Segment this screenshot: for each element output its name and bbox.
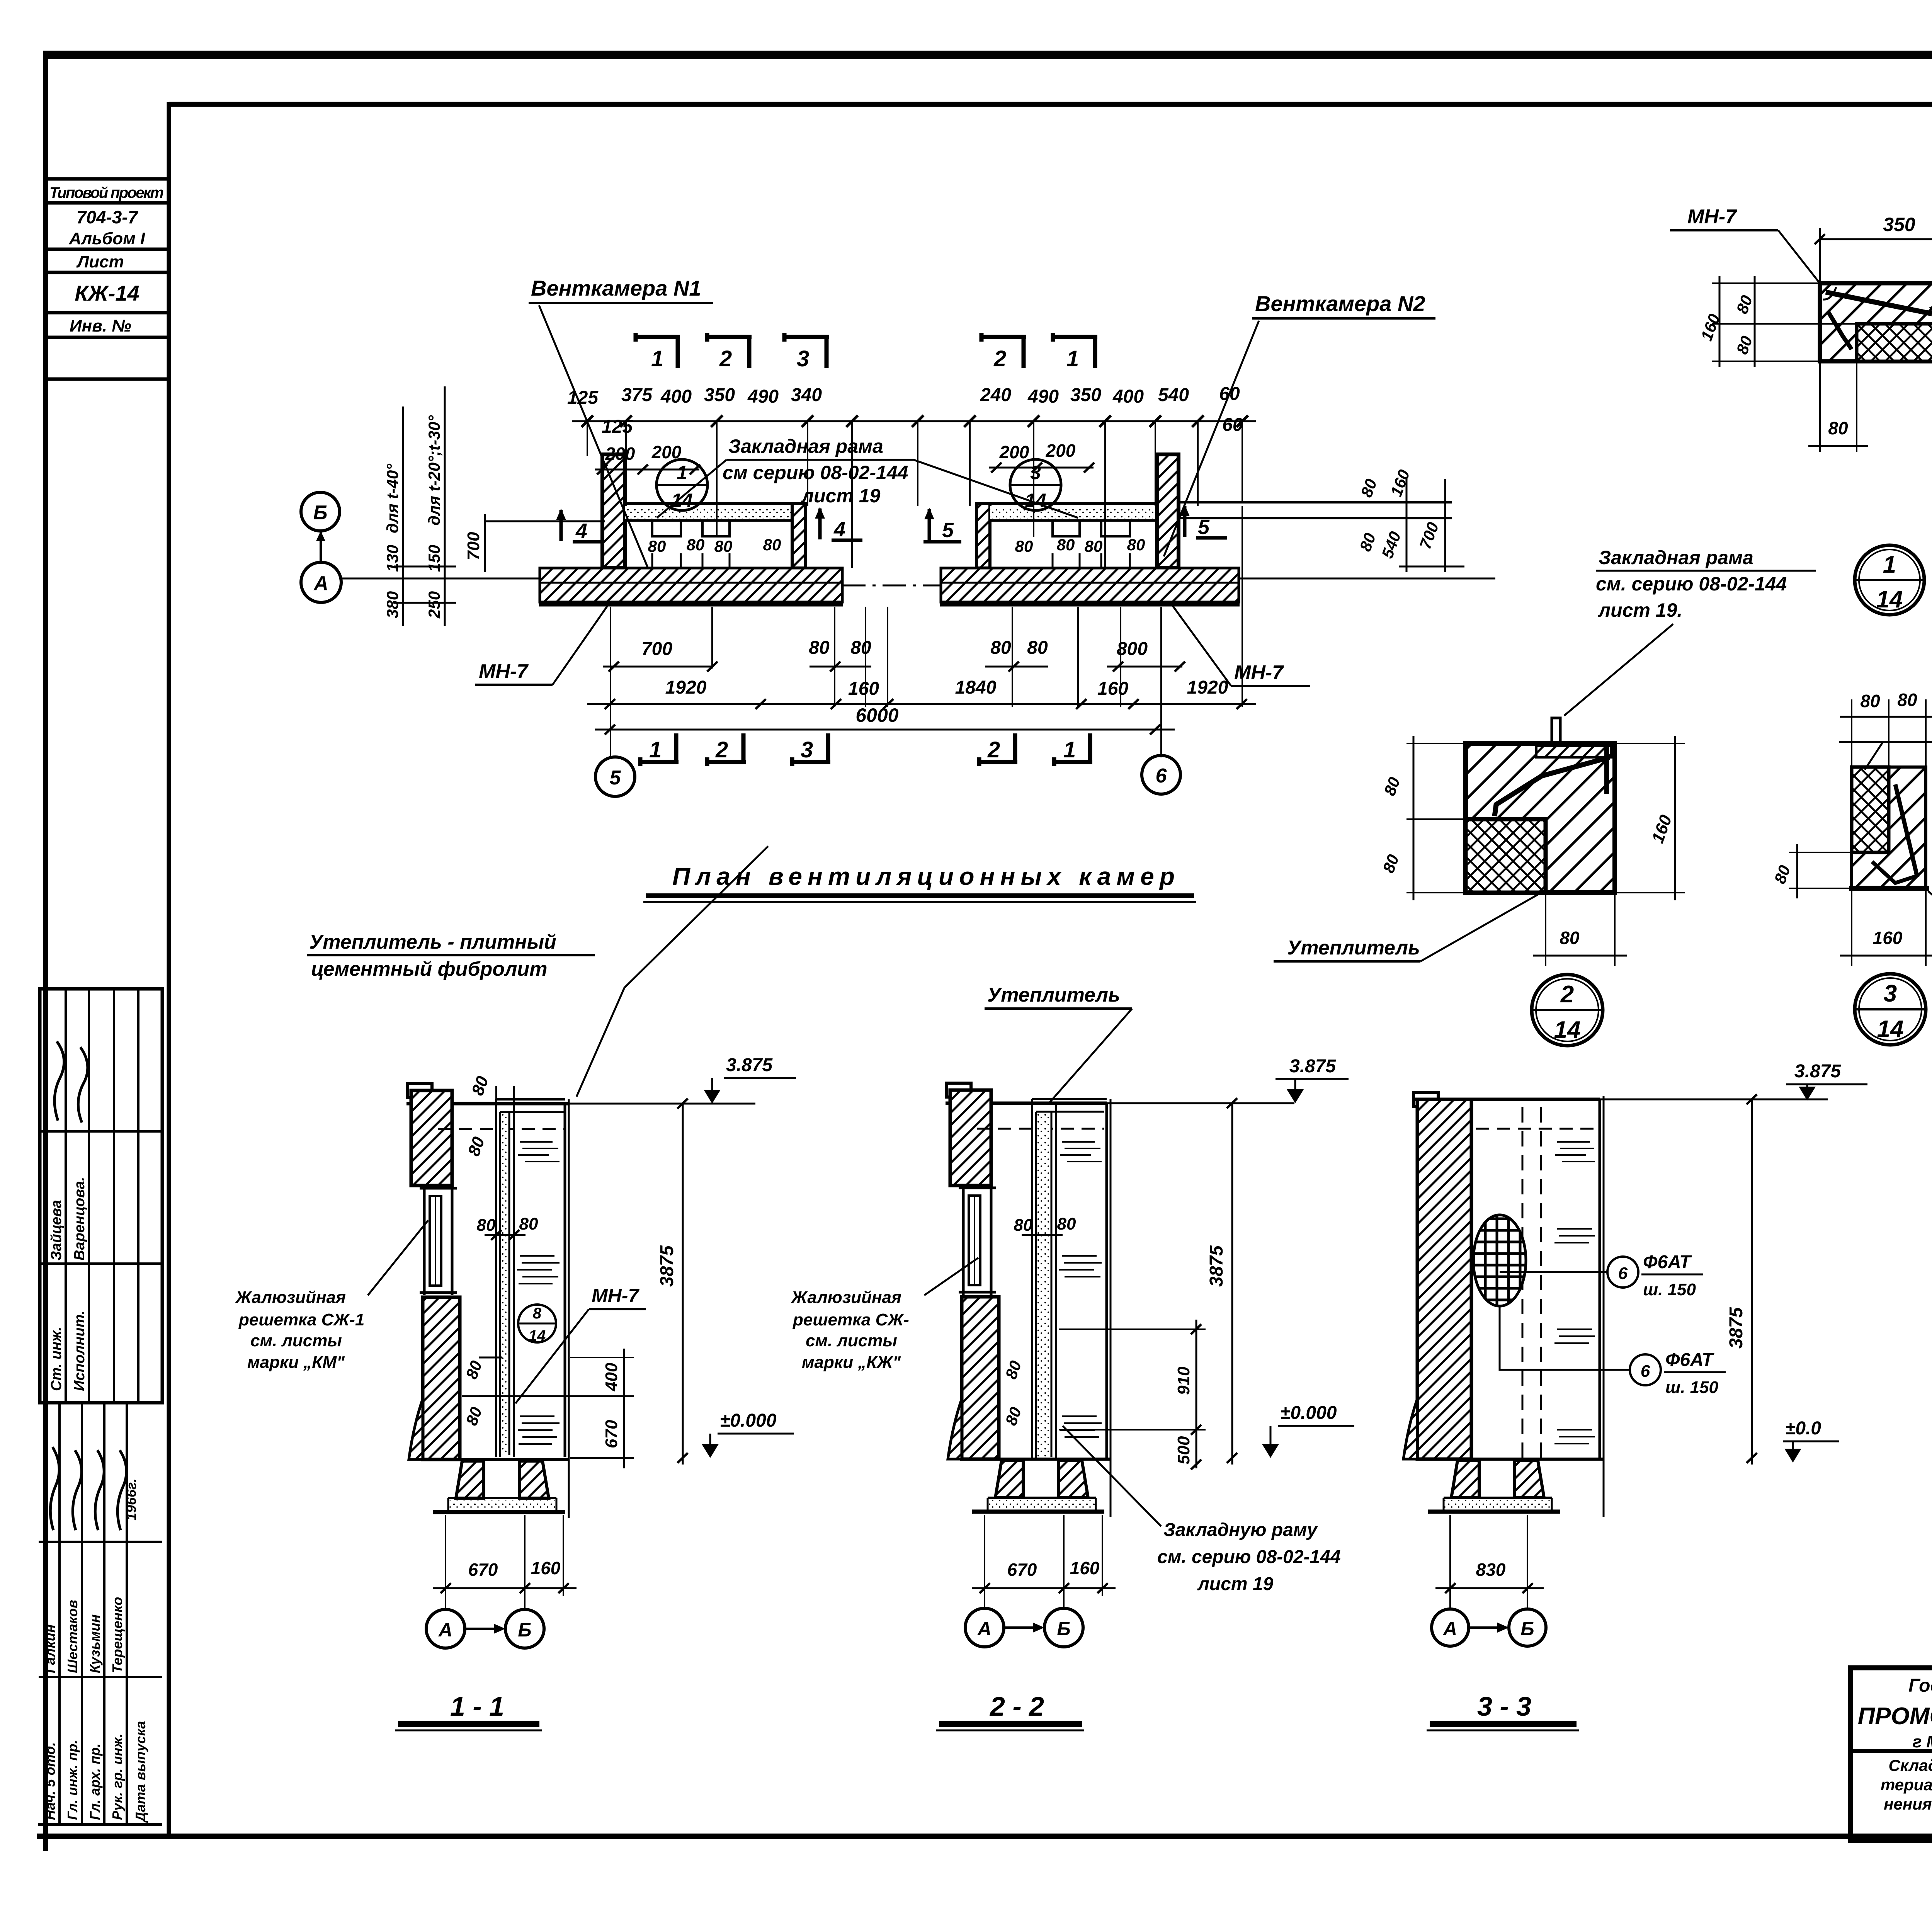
dim 3875 main	[1231, 1103, 1233, 1465]
svg-text:80: 80	[648, 537, 666, 555]
node axis circle А	[1432, 1609, 1469, 1646]
svg-text:3: 3	[801, 737, 813, 762]
svg-text:решетка СЖ-1: решетка СЖ-1	[238, 1310, 364, 1329]
svg-text:териалов тарного хра-: териалов тарного хра-	[1881, 1776, 1932, 1794]
hidden dashed pair	[1522, 1107, 1524, 1459]
svg-text:см серию 08-02-144: см серию 08-02-144	[723, 462, 908, 483]
svg-text:80: 80	[1860, 691, 1880, 711]
svg-text:Венткамера N2: Венткамера N2	[1255, 291, 1425, 316]
insulation left half detail 3	[1852, 767, 1889, 852]
svg-text:80: 80	[763, 536, 781, 554]
svg-text:лист 19: лист 19	[1197, 1574, 1274, 1594]
wall top band N2	[990, 502, 1157, 505]
svg-text:1: 1	[1066, 346, 1079, 371]
svg-text:Ф6АТ: Ф6АТ	[1665, 1350, 1714, 1370]
svg-text:МН-7: МН-7	[1687, 206, 1737, 228]
parapet cap	[946, 1083, 971, 1097]
svg-text:Варенцова.: Варенцова.	[71, 1177, 88, 1260]
svg-text:Галкин: Галкин	[42, 1624, 58, 1673]
detail 2 square	[1466, 743, 1615, 893]
metal zigzag detail 2	[1495, 757, 1609, 816]
svg-text:1 - 1: 1 - 1	[450, 1691, 504, 1721]
dim 80 80 left of detail 2	[1413, 736, 1415, 900]
svg-text:6: 6	[1641, 1362, 1650, 1381]
svg-text:250: 250	[425, 591, 443, 619]
svg-text:цементный фибролит: цементный фибролит	[311, 958, 547, 980]
wire axis А line	[341, 578, 541, 580]
svg-text:марки „КЖ": марки „КЖ"	[802, 1353, 901, 1372]
wall thin lines to right	[1179, 501, 1452, 503]
svg-text:6: 6	[1156, 765, 1167, 787]
svg-text:14: 14	[1876, 586, 1903, 613]
node axis circle Б	[1509, 1609, 1546, 1646]
svg-text:150: 150	[425, 545, 443, 572]
node circle 8/14	[518, 1305, 556, 1342]
dim 80 labels inside chamber N1	[648, 536, 1145, 555]
svg-text:2: 2	[987, 737, 1000, 762]
svg-text:3.875: 3.875	[1289, 1056, 1336, 1077]
node axis Б circle	[301, 492, 340, 531]
svg-text:решетка СЖ-: решетка СЖ-	[793, 1310, 909, 1329]
svg-text:80: 80	[990, 638, 1011, 658]
svg-text:2: 2	[1560, 981, 1574, 1008]
svg-text:3.875: 3.875	[1794, 1061, 1841, 1082]
wire А-Б arrow	[465, 1628, 501, 1630]
lower signature block	[58, 1403, 61, 1824]
svg-text:14: 14	[1554, 1017, 1581, 1043]
svg-text:Б: Б	[1520, 1618, 1534, 1640]
svg-text:нения площадью 432м²: нения площадью 432м²	[1884, 1795, 1932, 1813]
svg-text:3875: 3875	[1206, 1245, 1227, 1287]
svg-text:14: 14	[671, 490, 693, 511]
svg-text:490: 490	[1027, 386, 1059, 407]
svg-text:Утеплитель: Утеплитель	[1287, 937, 1420, 959]
embedded metal strap	[1826, 292, 1932, 314]
svg-text:для t-40°: для t-40°	[383, 463, 401, 533]
svg-text:Лист: Лист	[76, 252, 124, 271]
svg-text:1: 1	[651, 346, 663, 371]
svg-text:80: 80	[1014, 1216, 1033, 1235]
svg-text:2: 2	[993, 346, 1006, 371]
node axis А circle	[301, 562, 341, 602]
parapet hatched	[950, 1090, 991, 1186]
channel top bend	[496, 1098, 565, 1101]
floor line	[1417, 1458, 1604, 1461]
svg-text:540: 540	[1158, 385, 1189, 405]
wire А-Б arrow	[1469, 1626, 1504, 1629]
svg-text:Закладная рама: Закладная рама	[1599, 547, 1753, 568]
svg-text:Б: Б	[313, 502, 328, 524]
svg-text:800: 800	[1117, 639, 1148, 659]
svg-text:см. листы: см. листы	[806, 1331, 897, 1350]
wall bottom flare	[409, 1399, 423, 1459]
svg-text:200: 200	[605, 444, 635, 464]
svg-text:700: 700	[641, 639, 672, 659]
wall end L N2	[976, 503, 990, 568]
svg-text:1: 1	[649, 737, 662, 762]
svg-text:3 - 3: 3 - 3	[1477, 1691, 1531, 1721]
svg-text:Зайцева: Зайцева	[48, 1200, 65, 1260]
svg-text:670: 670	[602, 1420, 621, 1448]
metal brace detail 3	[1895, 784, 1917, 877]
anchor pin detail 2	[1552, 718, 1560, 743]
svg-text:80: 80	[1560, 928, 1580, 948]
svg-text:80: 80	[850, 638, 871, 658]
svg-text:Б: Б	[1057, 1618, 1070, 1640]
svg-text:см. серию 08-02-144: см. серию 08-02-144	[1596, 573, 1787, 595]
label Закладную раму callout	[1157, 1520, 1341, 1594]
dim 80 80 above detail 3	[1851, 699, 1852, 769]
svg-text:14: 14	[1877, 1016, 1904, 1043]
svg-text:А: А	[1442, 1618, 1457, 1640]
label Жалюзийная решетка sec2	[791, 1288, 909, 1372]
louver jambs	[962, 1185, 965, 1295]
svg-text:160: 160	[531, 1558, 561, 1578]
insulation block in detail	[1857, 324, 1932, 361]
svg-text:см. серию 08-02-144: см. серию 08-02-144	[1157, 1547, 1341, 1567]
svg-text:80: 80	[1828, 418, 1848, 438]
svg-text:Венткамера N1: Венткамера N1	[531, 276, 701, 300]
dim 80 left of detail 3	[1796, 844, 1798, 898]
svg-text:Склад масел и химма-: Склад масел и химма-	[1888, 1756, 1932, 1774]
dim 3875 main	[682, 1104, 684, 1465]
svg-text:Жалюзийная: Жалюзийная	[235, 1288, 346, 1307]
svg-text:для t-20°;t-30°: для t-20°;t-30°	[425, 415, 443, 526]
node axis circle А	[426, 1609, 465, 1648]
svg-text:160: 160	[848, 679, 879, 699]
svg-text:4: 4	[833, 518, 845, 541]
svg-text:2: 2	[715, 737, 728, 762]
dim 3875 main	[1751, 1099, 1753, 1465]
section mark 1 bottom right	[1054, 733, 1092, 766]
svg-text:400: 400	[660, 386, 692, 407]
hidden dashed line	[977, 1128, 1104, 1130]
upper signature block	[40, 989, 162, 1403]
section mark 4 in plan right	[818, 509, 822, 539]
svg-text:6: 6	[1618, 1264, 1628, 1283]
bottom thick edge detail 3	[1849, 886, 1929, 891]
dim extension verticals below	[611, 506, 1242, 757]
inner face line	[1470, 1099, 1473, 1459]
dim extension verticals from top dim	[587, 421, 1242, 568]
lightweight concrete dashes	[1554, 1142, 1595, 1444]
svg-text:МН-7: МН-7	[479, 660, 529, 683]
dim right stack	[1406, 479, 1408, 572]
dim 830 bottom	[1450, 1515, 1527, 1608]
section mark 1 bottom	[640, 733, 679, 766]
dim 670 160 bottom	[446, 1515, 563, 1609]
node axis circle Б	[1044, 1608, 1083, 1647]
svg-text:3: 3	[797, 346, 809, 371]
parapet cap	[407, 1084, 432, 1097]
wall left thick N1	[602, 454, 625, 568]
wall bottom flare	[1403, 1399, 1417, 1459]
left wall hatched full height	[1417, 1099, 1471, 1459]
section mark 4 in plan left	[560, 510, 563, 541]
label Жалюзийная решетка	[235, 1288, 364, 1372]
wire А-Б connector arrow	[320, 531, 322, 561]
left stamp strip right edge	[167, 102, 171, 1836]
wall right thick N2	[1157, 454, 1179, 568]
dim top row texts	[567, 384, 1243, 437]
section mark 3 top	[784, 333, 829, 368]
svg-text:Типовой проект: Типовой проект	[49, 184, 164, 201]
svg-text:5: 5	[1198, 515, 1210, 539]
svg-text:700: 700	[464, 532, 483, 560]
dim 200 200 right	[999, 441, 1076, 462]
insulation block detail 2	[1466, 819, 1546, 893]
svg-text:Утеплитель: Утеплитель	[987, 984, 1120, 1006]
lightweight concrete dashes	[1059, 1142, 1102, 1437]
node circle 1/14 big	[1855, 545, 1924, 615]
svg-text:160: 160	[1070, 1558, 1100, 1578]
svg-text:4: 4	[575, 519, 587, 543]
slab right part	[941, 568, 1239, 602]
svg-text:1: 1	[1883, 551, 1896, 578]
svg-text:910: 910	[1174, 1366, 1193, 1395]
svg-text:340: 340	[791, 385, 822, 405]
wall pocket 1 N1	[652, 520, 681, 536]
svg-text:Альбом I: Альбом I	[69, 229, 145, 248]
svg-text:8: 8	[533, 1305, 542, 1322]
left temperature dim line 2	[444, 386, 446, 626]
svg-text:Исполнит.: Исполнит.	[71, 1310, 88, 1391]
wall pocket 2 N1	[702, 520, 730, 536]
mesh opening	[1473, 1215, 1526, 1306]
svg-text:1920: 1920	[665, 677, 707, 698]
foundation block right	[519, 1461, 549, 1498]
svg-text:Ф6АТ: Ф6АТ	[1643, 1252, 1692, 1272]
svg-text:см. листы: см. листы	[250, 1331, 342, 1350]
svg-text:2: 2	[719, 346, 732, 371]
node circle 2/14	[1532, 975, 1603, 1046]
channel walls	[495, 1099, 497, 1457]
svg-text:80: 80	[1057, 536, 1075, 554]
svg-text:3.875: 3.875	[726, 1055, 773, 1075]
svg-text:830: 830	[1476, 1560, 1506, 1580]
section mark 1 top	[636, 333, 680, 368]
svg-text:Терещенко: Терещенко	[109, 1597, 125, 1673]
dim top main line	[572, 420, 1256, 422]
svg-text:14: 14	[529, 1327, 546, 1344]
svg-text:1966г.: 1966г.	[123, 1478, 139, 1521]
wall top line	[1413, 1098, 1600, 1101]
dim 80 below detail 2	[1545, 895, 1546, 966]
metal hook left	[1828, 312, 1852, 349]
section mark 2 bottom	[707, 733, 746, 766]
svg-text:ш. 150: ш. 150	[1665, 1378, 1719, 1397]
dim 910 500	[1196, 1320, 1197, 1468]
svg-text:3875: 3875	[657, 1245, 677, 1287]
section mark 1 top right	[1053, 333, 1097, 368]
foundation blocks	[1451, 1461, 1479, 1498]
dim 200 200 left	[605, 442, 682, 464]
svg-text:80: 80	[714, 537, 733, 555]
svg-text:80: 80	[1127, 536, 1145, 554]
svg-text:80: 80	[687, 536, 705, 554]
svg-text:1: 1	[1063, 737, 1076, 762]
svg-text:500: 500	[1174, 1436, 1193, 1465]
svg-text:80: 80	[477, 1216, 496, 1235]
svg-text:400: 400	[1112, 386, 1144, 407]
dim 80 80 middle	[1014, 1214, 1076, 1235]
svg-text:400: 400	[602, 1362, 621, 1391]
dim row B below plan	[665, 677, 1228, 699]
svg-text:375: 375	[621, 385, 653, 405]
svg-text:ш. 150: ш. 150	[1643, 1280, 1696, 1299]
svg-text:Кузьмин: Кузьмин	[87, 1614, 103, 1673]
svg-text:80: 80	[1057, 1214, 1076, 1233]
wall bottom flare	[948, 1399, 962, 1459]
svg-text:Госстрой СССР: Госстрой СССР	[1908, 1675, 1932, 1696]
dim 80 80 below detail	[1819, 363, 1821, 452]
svg-text:80: 80	[1015, 537, 1033, 555]
right wall face	[1105, 1103, 1108, 1459]
svg-text:240: 240	[980, 385, 1011, 405]
svg-text:МН-7: МН-7	[592, 1285, 639, 1306]
lower wall hatched	[423, 1297, 460, 1459]
svg-text:670: 670	[1007, 1560, 1037, 1580]
node circle 3/14	[1010, 459, 1061, 510]
floor line	[423, 1458, 569, 1461]
svg-text:670: 670	[468, 1560, 498, 1580]
corner pocket left	[1823, 287, 1836, 299]
lower wall hatched	[962, 1297, 999, 1459]
dim row A below plan	[641, 638, 1148, 659]
svg-text:Дата выпуска: Дата выпуска	[133, 1721, 148, 1823]
svg-text:5: 5	[942, 519, 954, 542]
top scan bar	[46, 51, 1932, 59]
svg-text:1920: 1920	[1187, 677, 1228, 698]
svg-text:Шестаков: Шестаков	[65, 1600, 80, 1673]
section mark 3 bottom	[792, 733, 830, 766]
svg-text:Гл. арх. пр.: Гл. арх. пр.	[87, 1744, 103, 1820]
node axis circle 5	[595, 757, 635, 796]
svg-text:5: 5	[610, 767, 621, 789]
section mark 2 top right	[981, 333, 1026, 368]
svg-text:490: 490	[747, 386, 779, 407]
svg-text:Закладную раму: Закладную раму	[1163, 1520, 1318, 1540]
dim 700 vertical left	[484, 514, 486, 572]
label Утеплитель - плитный цементный фибролит	[309, 931, 556, 980]
svg-text:80: 80	[809, 638, 830, 658]
dim 80 80 middle	[477, 1214, 538, 1235]
wall pocket 2 N2	[1101, 520, 1130, 536]
svg-text:лист 19.: лист 19.	[1598, 599, 1682, 621]
section mark 5 in plan right	[1183, 506, 1187, 537]
foundation blocks	[995, 1461, 1023, 1498]
metal angle right	[1930, 293, 1932, 309]
section mark 5 in plan middle	[928, 509, 931, 541]
svg-text:3: 3	[1884, 980, 1897, 1007]
svg-text:±0.000: ±0.000	[720, 1410, 777, 1431]
node circle 1/14	[656, 459, 707, 510]
node axis circle А	[965, 1608, 1004, 1647]
louver grille	[969, 1196, 980, 1285]
foundation base	[448, 1497, 556, 1499]
svg-text:1840: 1840	[955, 677, 997, 698]
svg-text:160: 160	[1873, 928, 1903, 948]
wall end L N1	[792, 503, 806, 568]
wall pocket 1 N2	[1053, 520, 1080, 536]
svg-text:80: 80	[1085, 537, 1103, 555]
hidden dashed line	[438, 1128, 565, 1130]
dim 160 80 80 left of detail	[1719, 276, 1721, 367]
svg-text:80: 80	[1027, 638, 1048, 658]
lightweight concrete dashes	[517, 1142, 560, 1444]
parapet hatched	[411, 1090, 452, 1186]
svg-text:160: 160	[1097, 679, 1128, 699]
rebar circle 6 upper	[1607, 1257, 1638, 1288]
svg-text:350: 350	[1070, 385, 1101, 405]
rebar circle 6 lower	[1630, 1354, 1661, 1385]
svg-text:КЖ-14: КЖ-14	[75, 281, 139, 305]
left temperature dim line 1	[402, 407, 404, 626]
svg-text:А: А	[313, 572, 328, 595]
right wall face	[564, 1104, 566, 1457]
svg-text:±0.000: ±0.000	[1280, 1403, 1337, 1423]
parapet cap	[1413, 1092, 1438, 1106]
svg-text:ПРОМСТРОЙПРОЕКТ: ПРОМСТРОЙПРОЕКТ	[1858, 1702, 1932, 1730]
svg-text:Гл. инж. пр.: Гл. инж. пр.	[65, 1740, 80, 1820]
hidden dashed top	[1476, 1128, 1598, 1130]
svg-text:марки „КМ": марки „КМ"	[247, 1353, 345, 1372]
svg-text:80: 80	[519, 1214, 538, 1233]
svg-text:200: 200	[999, 442, 1029, 462]
svg-text:2 - 2: 2 - 2	[989, 1691, 1044, 1721]
svg-text:3: 3	[1030, 462, 1041, 483]
dim 400 670	[623, 1349, 625, 1468]
section mark 2 top	[707, 333, 752, 368]
svg-text:Закладная рама: Закладная рама	[728, 435, 883, 457]
metal bottom angle detail 3	[1872, 862, 1917, 883]
svg-text:Жалюзийная: Жалюзийная	[791, 1288, 901, 1307]
node axis circle 6	[1142, 755, 1180, 794]
dim 160 below detail 3	[1851, 891, 1852, 966]
wall top band N1	[625, 502, 806, 505]
svg-text:130: 130	[383, 545, 401, 572]
svg-text:±0.0: ±0.0	[1785, 1418, 1821, 1439]
wall top line	[946, 1102, 1107, 1105]
right wall face	[1599, 1099, 1601, 1459]
svg-text:350: 350	[704, 385, 735, 405]
svg-text:Б: Б	[518, 1619, 531, 1641]
slab left part	[540, 568, 842, 602]
label Закладная рама callout middle	[1596, 547, 1787, 621]
dim 160 right of detail 2	[1674, 736, 1676, 900]
inner frame top	[169, 102, 1932, 107]
louver jambs	[423, 1186, 426, 1295]
label Закладная рама callout	[723, 435, 908, 507]
svg-text:380: 380	[383, 591, 401, 618]
svg-text:Нач. 5 отд.: Нач. 5 отд.	[42, 1742, 58, 1820]
channel top bend	[1032, 1098, 1107, 1100]
wire А-Б arrow	[1004, 1626, 1040, 1629]
svg-text:А: А	[438, 1619, 452, 1641]
svg-text:6000: 6000	[855, 704, 898, 726]
svg-text:г Москва - 1966г.: г Москва - 1966г.	[1913, 1732, 1932, 1751]
svg-text:лист 19: лист 19	[801, 485, 881, 507]
embedded frame top strap detail 2	[1536, 746, 1611, 757]
wire slab gap centerline	[842, 585, 941, 587]
left sheet border	[43, 51, 48, 1851]
svg-text:3875: 3875	[1726, 1307, 1747, 1349]
detail frame МН-7 plan view rect	[1820, 283, 1932, 361]
svg-text:60: 60	[1219, 384, 1240, 404]
svg-text:А: А	[977, 1618, 992, 1640]
svg-text:Утеплитель - плитный: Утеплитель - плитный	[309, 931, 556, 953]
svg-text:Ст. инж.: Ст. инж.	[48, 1327, 65, 1391]
